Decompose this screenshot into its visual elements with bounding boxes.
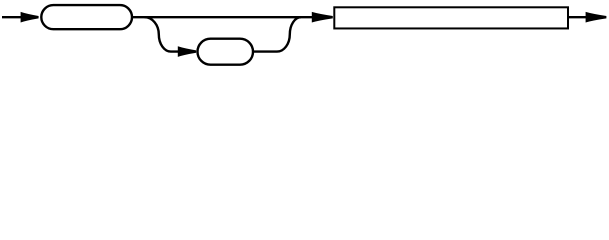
arrowhead into first pill xyxy=(21,12,39,23)
wire: branch curve down xyxy=(145,17,179,51)
wire: start line xyxy=(2,16,22,18)
wire: main horizontal line xyxy=(131,16,313,18)
terminal pill 1 xyxy=(41,5,132,29)
arrowhead into second pill xyxy=(178,46,196,57)
wire: exit line xyxy=(568,16,587,18)
arrowhead at end xyxy=(586,12,607,23)
non-terminal rectangle xyxy=(334,7,568,28)
arrowhead into rectangle xyxy=(312,12,333,23)
terminal pill 2 xyxy=(198,39,254,65)
wire: branch exit and curve up xyxy=(253,17,301,51)
